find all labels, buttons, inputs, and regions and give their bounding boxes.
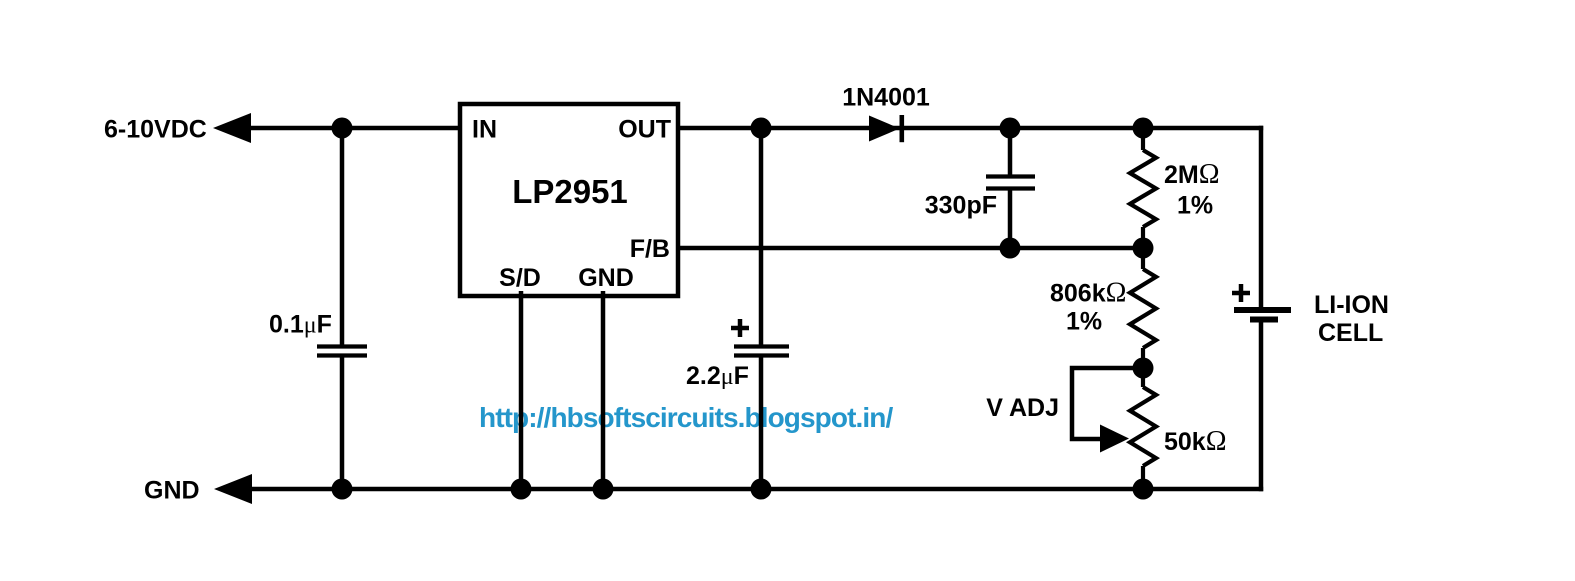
wire F/B rail [678,246,1143,251]
svg-text:0.1μF: 0.1μF [269,311,332,339]
wire top rail: arrow to IN pin [245,126,460,131]
junction dot F/B rail / R1-R2 [1133,238,1154,259]
svg-text:http://hbsoftscircuits.blogspo: http://hbsoftscircuits.blogspot.in/ [479,402,893,433]
diode D1 1N4001 [869,115,904,142]
junction dot bottom rail / R3 [1133,479,1154,500]
capacitor C2 2.2uF [734,128,789,489]
svg-text:50kΩ: 50kΩ [1164,426,1227,457]
svg-text:GND: GND [578,264,634,292]
svg-text:806kΩ: 806kΩ [1050,278,1126,309]
junction dot bottom rail / C2 [751,479,772,500]
wire top rail: OUT pin to right corner [678,126,1263,131]
wire S/D pin down [519,291,524,489]
svg-text:V ADJ: V ADJ [986,394,1059,422]
capacitor C1 0.1uF [317,128,367,489]
svg-text:OUT: OUT [618,116,671,144]
junction dot bottom rail / C1 [332,479,353,500]
wire bottom rail [246,487,1263,492]
svg-text:1%: 1% [1177,192,1213,220]
wire GND pin down [601,291,606,489]
battery BT1 LI-ION CELL [1234,310,1291,491]
svg-text:2.2μF: 2.2μF [686,362,749,390]
svg-text:GND: GND [144,477,200,505]
svg-text:LP2951: LP2951 [512,173,628,210]
junction dot R2-R3 wiper node [1133,358,1154,379]
svg-text:6-10VDC: 6-10VDC [104,116,207,144]
svg-text:IN: IN [472,116,497,144]
junction dot top rail / C1 [332,118,353,139]
svg-text:CELL: CELL [1318,319,1383,347]
junction dot top rail / C2 [751,118,772,139]
junction dot bottom rail / S/D [511,479,532,500]
wiper loop wire of R3 [1072,368,1143,439]
wiper arrow of R3 [1100,425,1129,453]
resistor R2 806k [1130,248,1156,368]
svg-text:2MΩ: 2MΩ [1164,159,1220,190]
input arrow (6-10VDC) [213,113,251,143]
junction dot top rail / C3 [1000,118,1021,139]
plus sign of C2 [731,319,749,337]
potentiometer R3 50k [1130,368,1156,489]
capacitor C3 330pF [986,128,1035,248]
junction dot top rail / R1 [1133,118,1154,139]
svg-text:LI-ION: LI-ION [1314,291,1389,319]
junction dot bottom rail / GND pin [593,479,614,500]
svg-text:S/D: S/D [499,264,541,292]
svg-text:1%: 1% [1066,308,1102,336]
svg-text:F/B: F/B [630,235,670,263]
wire right rail down to battery [1259,126,1264,307]
resistor R1 2M [1130,128,1156,248]
op-amp regulator U1 LP2951 box [460,104,678,296]
svg-text:330pF: 330pF [925,192,997,220]
plus sign of battery [1232,284,1250,302]
svg-text:1N4001: 1N4001 [842,84,930,112]
junction dot F/B rail / C3 [1000,238,1021,259]
ground arrow (GND) [214,474,252,504]
